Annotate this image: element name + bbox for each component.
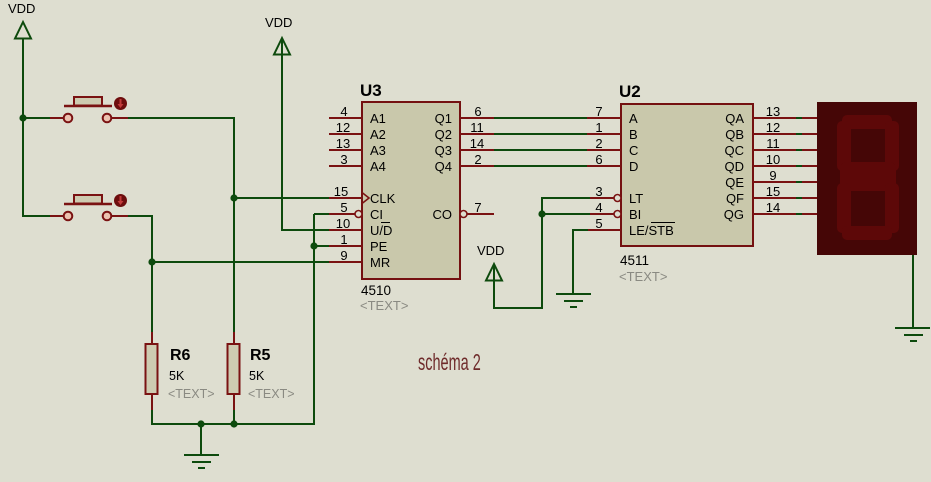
svg-text:6: 6: [595, 152, 602, 167]
wire Q2 to B: [493, 133, 588, 135]
node junction SW2-MR: [148, 258, 155, 265]
node junction ground1: [197, 420, 204, 427]
svg-text:3: 3: [340, 152, 347, 167]
svg-text:2: 2: [595, 136, 602, 151]
wire QB gap: [795, 133, 803, 135]
power VDD2 symbol: [274, 38, 290, 55]
svg-text:9: 9: [769, 168, 776, 183]
pin Q1 (6): [460, 117, 494, 119]
pin B (1): [587, 133, 621, 135]
svg-text:CO: CO: [433, 207, 453, 222]
pin CO (7): [467, 213, 494, 215]
svg-text:QE: QE: [725, 175, 744, 190]
svg-text:Q1: Q1: [435, 111, 452, 126]
svg-text:A2: A2: [370, 127, 386, 142]
wire QD gap: [795, 165, 803, 167]
wire MR row: [152, 261, 330, 263]
svg-text:11: 11: [470, 120, 484, 135]
svg-text:2: 2: [474, 152, 481, 167]
wire down to R6: [151, 262, 153, 333]
wire QG gap: [795, 213, 803, 215]
pin PE (1): [329, 245, 362, 247]
svg-text:9: 9: [340, 248, 347, 263]
node junction SW1-CLK: [230, 194, 237, 201]
switch SW2 (push button bottom): [50, 194, 128, 220]
svg-text:A: A: [629, 111, 638, 126]
svg-text:15: 15: [334, 184, 348, 199]
display 7-segment: [802, 102, 917, 255]
svg-text:A1: A1: [370, 111, 386, 126]
node junction VDD-SW1: [19, 114, 26, 121]
wire bottom bus: [152, 423, 315, 425]
pin LE/STB (5): [588, 229, 621, 231]
svg-text:15: 15: [766, 184, 780, 199]
pin A1 (4): [329, 117, 362, 119]
pin Q3 (14): [460, 149, 494, 151]
svg-text:13: 13: [336, 136, 350, 151]
svg-text:1: 1: [595, 120, 602, 135]
svg-text:12: 12: [336, 120, 350, 135]
wire SW1 column down to CLK: [233, 118, 235, 199]
svg-text:<TEXT>: <TEXT>: [619, 269, 667, 284]
wire SW2 column down to MR: [151, 216, 153, 263]
svg-text:A3: A3: [370, 143, 386, 158]
switch SW1 (push button top): [50, 97, 128, 122]
svg-text:<TEXT>: <TEXT>: [248, 387, 295, 401]
wire down to R5: [233, 198, 235, 333]
svg-text:QB: QB: [725, 127, 744, 142]
ground GND2: [556, 294, 591, 307]
pin Q4 (2): [460, 165, 494, 167]
pin Q2 (11): [460, 133, 494, 135]
svg-text:Q4: Q4: [435, 159, 452, 174]
svg-text:Q3: Q3: [435, 143, 452, 158]
svg-text:QA: QA: [725, 111, 744, 126]
svg-text:R5: R5: [250, 347, 271, 364]
wire VDD3 column up to LT: [541, 197, 543, 308]
pin label U/D overbar: [381, 222, 390, 224]
wire QA gap: [795, 117, 803, 119]
pin QG (14): [753, 213, 796, 215]
pin D (6): [587, 165, 621, 167]
wire R6 bottom: [151, 409, 153, 425]
wire R5 bottom: [233, 409, 235, 425]
node junction VDD3-BI: [538, 210, 545, 217]
svg-text:QG: QG: [724, 207, 744, 222]
wire QC gap: [795, 149, 803, 151]
ground GND3 display: [895, 328, 930, 341]
wire VDD1 to SW1 left: [22, 117, 54, 119]
pin QC (11): [753, 149, 796, 151]
wire CI-PE column: [313, 214, 315, 425]
svg-text:LE/STB: LE/STB: [629, 223, 674, 238]
op-amp U3 body (4510 counter): [360, 81, 460, 313]
wire VDD3 stem: [493, 264, 495, 309]
svg-text:MR: MR: [370, 255, 390, 270]
pin A3 (13): [329, 149, 362, 151]
wire Q3 to C: [493, 149, 588, 151]
svg-text:7: 7: [595, 104, 602, 119]
svg-text:5: 5: [340, 200, 347, 215]
pin label LE/STB overbar: [651, 222, 675, 224]
svg-text:10: 10: [336, 216, 350, 231]
resistor R6: [146, 332, 215, 410]
pin A2 (12): [329, 133, 362, 135]
wire VDD3 horizontal: [494, 307, 543, 309]
resistor R5: [228, 332, 295, 410]
wire QF gap: [795, 197, 803, 199]
wire U/D row: [282, 229, 330, 231]
svg-text:4511: 4511: [620, 253, 649, 268]
pin CLK (15): [329, 197, 362, 199]
ground GND1: [184, 455, 219, 468]
wire LE/STB row: [572, 229, 589, 231]
svg-text:U3: U3: [360, 81, 382, 100]
wire Q4 to D: [493, 165, 588, 167]
pin QD (10): [753, 165, 796, 167]
wire PE row: [314, 245, 330, 247]
svg-text:R6: R6: [170, 347, 191, 364]
svg-text:6: 6: [474, 104, 481, 119]
svg-text:QC: QC: [725, 143, 745, 158]
node junction CI-PE: [310, 242, 317, 249]
node label schema 2: [418, 351, 481, 376]
svg-text:4: 4: [340, 104, 347, 119]
svg-text:D: D: [629, 159, 638, 174]
svg-text:PE: PE: [370, 239, 388, 254]
svg-text:U2: U2: [619, 82, 641, 101]
svg-text:B: B: [629, 127, 638, 142]
svg-text:VDD: VDD: [265, 15, 292, 30]
svg-text:10: 10: [766, 152, 780, 167]
op-amp U2 body (4511 decoder): [619, 82, 753, 284]
svg-text:Q2: Q2: [435, 127, 452, 142]
pin CI (5): [329, 213, 355, 215]
pin BI inversion bubble: [614, 211, 621, 218]
svg-text:A4: A4: [370, 159, 386, 174]
pin QB (12): [753, 133, 796, 135]
wire VDD2 stem: [281, 38, 283, 231]
pin MR (9): [329, 261, 362, 263]
svg-text:schéma 2: schéma 2: [418, 351, 481, 376]
svg-text:BI: BI: [629, 207, 641, 222]
svg-text:<TEXT>: <TEXT>: [360, 298, 408, 313]
svg-text:VDD: VDD: [477, 243, 504, 258]
svg-text:<TEXT>: <TEXT>: [168, 387, 215, 401]
svg-text:5: 5: [595, 216, 602, 231]
svg-text:3: 3: [595, 184, 602, 199]
power VDD3 symbol: [486, 264, 502, 281]
svg-text:13: 13: [766, 104, 780, 119]
svg-text:12: 12: [766, 120, 780, 135]
svg-text:14: 14: [470, 136, 484, 151]
svg-text:U/D: U/D: [370, 223, 392, 238]
svg-text:14: 14: [766, 200, 780, 215]
svg-text:CLK: CLK: [370, 191, 396, 206]
node junction R5-bus: [230, 420, 237, 427]
pin C (2): [587, 149, 621, 151]
wire QE gap: [795, 181, 803, 183]
pin CLK clock chevron: [362, 193, 369, 204]
svg-text:QF: QF: [726, 191, 744, 206]
wire ground1 stem: [200, 424, 202, 456]
wire VDD1 stem: [22, 38, 24, 217]
pin QA (13): [753, 117, 796, 119]
wire SW1 out horizontal: [128, 117, 235, 119]
power VDD1 symbol: [15, 22, 31, 39]
pin A (7): [587, 117, 621, 119]
pin QF (15): [753, 197, 796, 199]
svg-text:5K: 5K: [249, 369, 265, 383]
pin BI (4): [590, 213, 614, 215]
svg-text:C: C: [629, 143, 638, 158]
wire Q1 to A: [493, 117, 588, 119]
svg-text:4: 4: [595, 200, 602, 215]
pin LT (3): [590, 197, 614, 199]
svg-text:1: 1: [340, 232, 347, 247]
wire VDD1 to SW2 left: [23, 215, 54, 217]
svg-text:CI: CI: [370, 207, 383, 222]
svg-text:11: 11: [766, 136, 780, 151]
pin CI inversion bubble: [355, 211, 362, 218]
wire LE/STB down to ground2: [572, 230, 574, 294]
pin LT inversion bubble: [614, 195, 621, 202]
wire CI row: [314, 213, 330, 215]
wire SW2 out horizontal: [128, 215, 153, 217]
svg-text:LT: LT: [629, 191, 643, 206]
wire CLK row: [234, 197, 330, 199]
pin CO inversion bubble: [460, 211, 467, 218]
svg-text:7: 7: [474, 200, 481, 215]
svg-text:4510: 4510: [361, 283, 391, 298]
pin A4 (3): [329, 165, 362, 167]
wire BI row: [542, 213, 597, 215]
svg-text:5K: 5K: [169, 369, 185, 383]
wire display common down: [912, 255, 914, 329]
pin QE (9): [753, 181, 796, 183]
svg-text:VDD: VDD: [8, 1, 35, 16]
wire LT row: [542, 197, 597, 199]
pin U/D (10): [329, 229, 362, 231]
svg-text:QD: QD: [725, 159, 745, 174]
